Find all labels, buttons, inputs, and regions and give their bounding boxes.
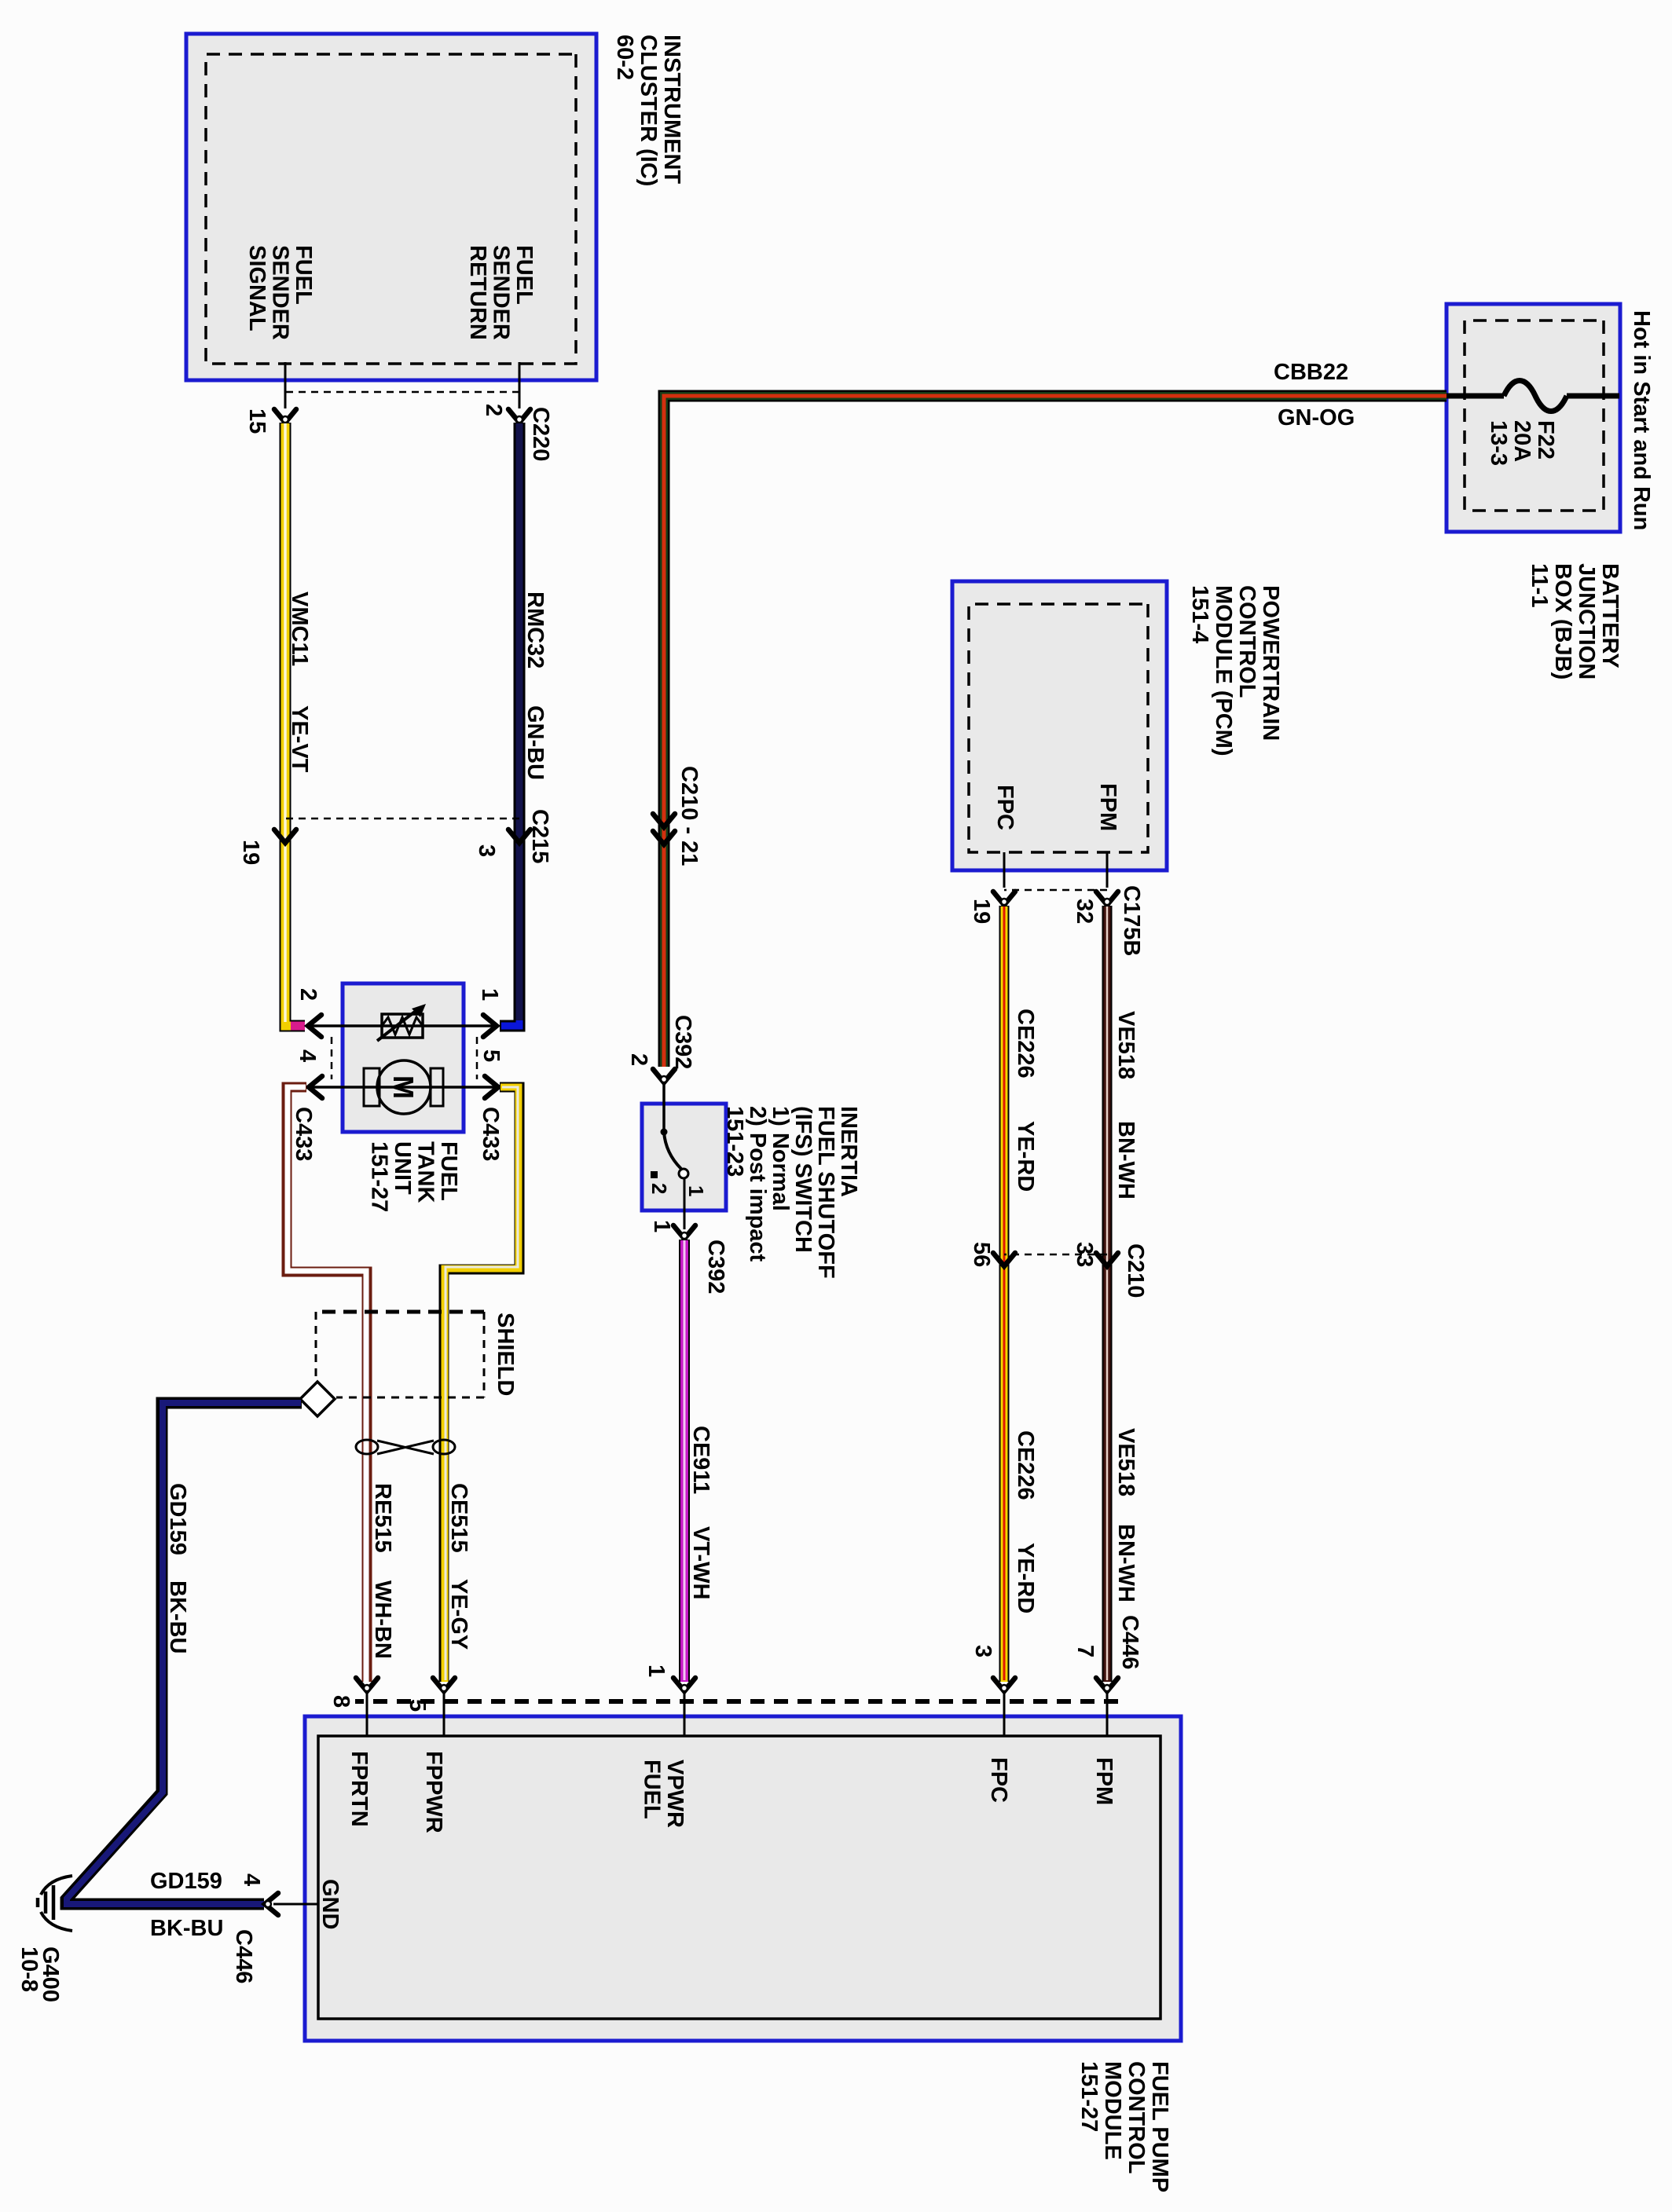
wire through motor	[310, 1086, 497, 1089]
wire module pin 5 lead	[443, 1693, 445, 1737]
svg-text:FUEL: FUEL	[640, 1760, 665, 1819]
connector C175B dashed boundary	[1004, 889, 1107, 892]
svg-text:GN-OG: GN-OG	[1278, 405, 1355, 430]
svg-text:CE911: CE911	[688, 1426, 713, 1494]
wire module pin 3 lead	[1003, 1693, 1006, 1737]
svg-text:VT-WH: VT-WH	[688, 1526, 713, 1599]
svg-text:FPC: FPC	[992, 785, 1017, 830]
svg-text:FUEL: FUEL	[291, 245, 316, 305]
connector module boundary heavy dashed line	[355, 1699, 1118, 1704]
wire CBB22 GN-OG from BJB fuse to IFS switch	[664, 396, 1446, 1067]
svg-text:M: M	[387, 1075, 420, 1099]
svg-text:JUNCTION: JUNCTION	[1574, 563, 1599, 679]
svg-text:32: 32	[1072, 899, 1097, 924]
svg-text:151-27: 151-27	[1076, 2061, 1102, 2132]
svg-text:GND: GND	[317, 1879, 343, 1929]
svg-text:BOX (BJB): BOX (BJB)	[1550, 563, 1575, 679]
svg-text:(IFS) SWITCH: (IFS) SWITCH	[790, 1106, 816, 1253]
svg-text:POWERTRAIN: POWERTRAIN	[1258, 585, 1283, 741]
component box: BATTERY JUNCTION BOX (BJB)	[1446, 304, 1620, 532]
svg-text:CE226: CE226	[1013, 1009, 1038, 1079]
svg-text:C433: C433	[291, 1107, 316, 1161]
wire module pin 8 lead	[366, 1693, 368, 1737]
connector C433 dashed boundary (top)	[476, 1037, 478, 1079]
svg-text:BK-BU: BK-BU	[165, 1580, 190, 1654]
svg-text:YE-VT: YE-VT	[287, 705, 312, 773]
svg-text:FUEL: FUEL	[436, 1141, 461, 1201]
svg-text:11-1: 11-1	[1527, 563, 1552, 607]
connector module pin 8 chevron	[356, 1678, 378, 1691]
component box: FUEL PUMP CONTROL MODULE	[305, 1716, 1181, 2041]
svg-text:C175B: C175B	[1119, 885, 1144, 956]
twisted pair symbol on RE515/CE515	[433, 1440, 455, 1454]
connector fuel tank pin 5 chevron	[485, 1076, 498, 1098]
wire violet end segment (YE-VT) at fuel tank pin 2	[291, 1022, 305, 1031]
connector module pin 1 chevron	[673, 1678, 695, 1691]
svg-text:FUEL SHUTOFF: FUEL SHUTOFF	[813, 1106, 838, 1279]
connector C220 dashed boundary	[285, 391, 519, 394]
svg-text:151-27: 151-27	[367, 1141, 392, 1212]
IFS switch contact circle (pin 1)	[679, 1169, 688, 1178]
svg-text:1: 1	[649, 1220, 674, 1232]
svg-text:SIGNAL: SIGNAL	[244, 245, 269, 331]
wire C392 pin 2 lead into IFS switch	[662, 1082, 665, 1132]
svg-text:MODULE (PCM): MODULE (PCM)	[1211, 585, 1236, 756]
svg-text:7: 7	[1072, 1645, 1098, 1657]
component box: POWERTRAIN CONTROL MODULE (PCM)	[952, 581, 1167, 870]
svg-text:MODULE: MODULE	[1100, 2061, 1125, 2160]
component box: FUEL TANK UNIT	[343, 983, 464, 1132]
svg-text:C215: C215	[527, 809, 552, 863]
svg-text:CE226: CE226	[1013, 1430, 1038, 1500]
connector C392 pin 1 chevron	[673, 1225, 695, 1239]
wire VMC11 YE-VT yellow from IC pin 15 to fuel tank unit pin 2	[285, 423, 305, 1026]
connector IC pin 2 chevron	[508, 409, 530, 423]
svg-text:UNIT: UNIT	[390, 1141, 415, 1195]
variable resistor R (fuel level sender)	[382, 1014, 423, 1038]
svg-text:8: 8	[328, 1695, 354, 1708]
svg-text:BN-WH: BN-WH	[1113, 1121, 1138, 1199]
svg-text:CONTROL: CONTROL	[1124, 2061, 1149, 2174]
svg-text:151-23: 151-23	[722, 1106, 747, 1177]
svg-text:GD159: GD159	[150, 1869, 222, 1894]
svg-text:1: 1	[684, 1185, 708, 1196]
connector C215 chevron on RMC32 (pin 3)	[508, 829, 530, 843]
connector PCM pin 32 chevron	[1096, 892, 1118, 905]
svg-text:INSTRUMENT: INSTRUMENT	[659, 35, 684, 184]
connector fuel tank pin 1 chevron	[483, 1015, 497, 1037]
svg-text:60-2: 60-2	[612, 35, 637, 80]
svg-text:2: 2	[626, 1053, 651, 1066]
svg-text:56: 56	[969, 1242, 994, 1267]
svg-text:5: 5	[478, 1049, 504, 1062]
svg-text:C446: C446	[231, 1929, 256, 1983]
svg-text:FPPWR: FPPWR	[421, 1751, 446, 1833]
wire PCM FPC lead	[1003, 852, 1006, 888]
svg-text:CBB22: CBB22	[1274, 360, 1348, 385]
svg-text:VPWR: VPWR	[662, 1760, 687, 1828]
wire CE515 YE-GY from fuel tank pin 5 to module FPPWR	[444, 1087, 519, 1682]
svg-text:GN-BU: GN-BU	[522, 705, 548, 780]
wire module pin 1 lead	[684, 1693, 686, 1737]
connector module pin 4 (GND) chevron	[265, 1893, 278, 1915]
connector module pin 3 chevron	[993, 1678, 1015, 1691]
svg-text:BATTERY: BATTERY	[1597, 563, 1622, 668]
IFS switch contact dot	[661, 1129, 668, 1136]
svg-text:INERTIA: INERTIA	[836, 1106, 861, 1197]
component box: INERTIA FUEL SHUTOFF (IFS) SWITCH	[642, 1104, 726, 1210]
connector module pin 7 chevron	[1096, 1678, 1118, 1691]
svg-text:C433: C433	[478, 1107, 503, 1161]
svg-text:F22: F22	[1533, 420, 1558, 460]
svg-text:TANK: TANK	[413, 1141, 438, 1203]
wire IFS pin 1 lead	[684, 1177, 686, 1210]
svg-text:GD159: GD159	[165, 1483, 190, 1555]
IFS post-impact contact square (2)	[651, 1171, 658, 1178]
svg-text:VE518: VE518	[1113, 1428, 1138, 1496]
svg-text:C210: C210	[1123, 1243, 1148, 1298]
wire module pin 7 lead	[1106, 1693, 1109, 1737]
wire module GND lead	[273, 1903, 318, 1906]
connector C210 dashed boundary (PCM harness)	[1004, 1254, 1107, 1256]
svg-text:FPM: FPM	[1095, 783, 1120, 831]
connector PCM pin 19 chevron	[993, 892, 1015, 905]
wire IC pin 15 lead	[284, 362, 287, 408]
svg-text:151-4: 151-4	[1187, 585, 1212, 643]
svg-text:C446: C446	[1117, 1615, 1142, 1669]
svg-text:FUEL PUMP: FUEL PUMP	[1147, 2061, 1172, 2192]
svg-text:15: 15	[244, 408, 269, 434]
wire CE226 YE-RD from PCM FPC to module FPC	[999, 906, 1010, 1682]
wire PCM FPM lead	[1106, 852, 1109, 888]
wire CE911 VT-WH from IFS switch to module VPWR FUEL	[679, 1240, 690, 1682]
connector C210 pin 21 (inline, double chevron)	[653, 814, 675, 827]
svg-text:CLUSTER (IC): CLUSTER (IC)	[636, 35, 661, 186]
svg-text:SENDER: SENDER	[268, 245, 293, 340]
svg-text:RMC32: RMC32	[522, 591, 548, 668]
shield dashed enclosure	[316, 1310, 484, 1314]
connector C215 dashed boundary	[285, 818, 519, 820]
svg-text:19: 19	[238, 840, 263, 865]
svg-text:C392: C392	[670, 1015, 695, 1069]
svg-text:2: 2	[481, 404, 506, 416]
connector C433 dashed boundary (bottom)	[331, 1037, 333, 1079]
wire through variable resistor (fuel level sender)	[310, 1024, 495, 1027]
svg-text:2: 2	[647, 1183, 671, 1194]
svg-text:VMC11: VMC11	[287, 591, 312, 666]
svg-text:1: 1	[643, 1664, 669, 1677]
svg-text:C220: C220	[528, 407, 553, 461]
wire blue end segment (GN-BU) at fuel tank pin 1	[501, 1020, 519, 1026]
svg-text:YE-RD: YE-RD	[1013, 1121, 1038, 1192]
svg-text:BK-BU: BK-BU	[150, 1916, 223, 1941]
connector module pin 5 chevron	[433, 1678, 455, 1691]
svg-text:3: 3	[970, 1645, 995, 1657]
svg-text:3: 3	[474, 844, 499, 857]
connector fuel tank pin 2 chevron	[308, 1015, 321, 1037]
wire RMC32 GN-BU dark from IC pin 2 to fuel tank unit pin 1	[500, 423, 519, 1026]
svg-text:WH-BN: WH-BN	[370, 1580, 395, 1659]
fuse F22 20A 13-3	[1567, 394, 1619, 399]
svg-text:CE515: CE515	[446, 1483, 471, 1553]
svg-text:VE518: VE518	[1113, 1011, 1138, 1079]
svg-text:FPRTN: FPRTN	[346, 1751, 372, 1827]
svg-text:C392: C392	[703, 1240, 728, 1294]
svg-text:FUEL: FUEL	[511, 245, 537, 305]
ground symbol G400	[41, 1876, 72, 1895]
svg-text:33: 33	[1072, 1242, 1097, 1267]
wire IC pin 2 lead	[519, 362, 521, 408]
connector C215 chevron on VMC11 (pin 19)	[274, 829, 296, 843]
motor M (fuel pump)	[377, 1060, 431, 1114]
shield drain diamond node	[300, 1382, 335, 1416]
svg-text:BN-WH: BN-WH	[1113, 1524, 1138, 1602]
svg-text:5: 5	[405, 1699, 430, 1712]
component box: INSTRUMENT CLUSTER (IC)	[186, 34, 596, 380]
connector C210 pin 56 chevron	[993, 1253, 1015, 1266]
connector C210 pin 33 chevron	[1096, 1253, 1118, 1266]
wire VE518 BN-WH from PCM FPM to module FPM	[1102, 906, 1113, 1682]
svg-text:1: 1	[477, 988, 502, 1001]
svg-text:4: 4	[295, 1049, 320, 1062]
svg-text:YE-GY: YE-GY	[446, 1579, 471, 1650]
svg-text:Hot in Start and Run: Hot in Start and Run	[1629, 310, 1654, 530]
connector IC pin 15 chevron	[274, 409, 296, 423]
svg-text:YE-RD: YE-RD	[1013, 1543, 1038, 1613]
svg-text:C210 - 21: C210 - 21	[676, 766, 702, 866]
svg-text:CONTROL: CONTROL	[1234, 585, 1259, 698]
svg-text:4: 4	[239, 1873, 264, 1886]
svg-text:13-3: 13-3	[1486, 420, 1511, 466]
svg-text:RETURN: RETURN	[465, 245, 490, 340]
svg-text:SENDER: SENDER	[489, 245, 514, 340]
svg-text:2) Post impact: 2) Post impact	[745, 1106, 770, 1262]
svg-text:20A: 20A	[1509, 420, 1534, 462]
svg-text:2: 2	[295, 988, 321, 1001]
svg-text:19: 19	[969, 899, 994, 924]
svg-text:SHIELD: SHIELD	[493, 1313, 518, 1396]
svg-text:FPM: FPM	[1091, 1757, 1116, 1805]
wire GD159 BK-BU ground wire from shield diamond to G400 and module GND	[66, 1403, 302, 1904]
IFS switch arm	[664, 1132, 681, 1169]
svg-text:1) Normal: 1) Normal	[768, 1106, 793, 1211]
svg-text:10-8: 10-8	[16, 1946, 42, 1992]
connector fuel tank pin 4 chevron	[309, 1076, 322, 1098]
svg-text:RE515: RE515	[370, 1483, 395, 1553]
svg-text:FPC: FPC	[986, 1757, 1011, 1803]
wire RE515 WH-BN from fuel tank pin 4 to module FPRTN	[287, 1087, 367, 1682]
connector C392 pin 2 chevron	[653, 1069, 675, 1082]
